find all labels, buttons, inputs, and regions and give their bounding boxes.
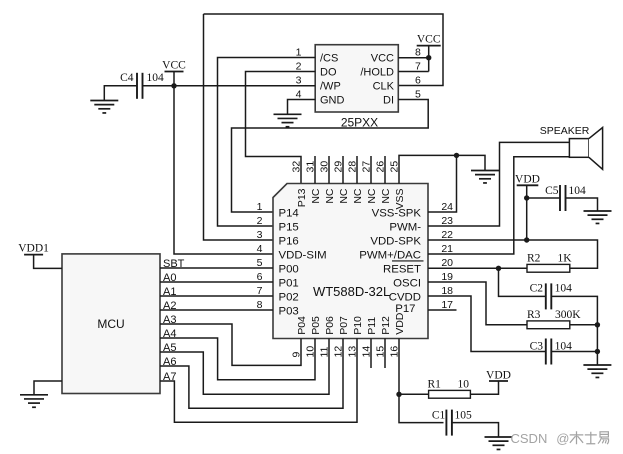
svg-text:WT588D-32L: WT588D-32L [313,284,390,299]
svg-text:C5: C5 [545,185,559,197]
node VCC-pin8 junction [426,55,431,60]
wire DI to P14 [232,100,429,213]
pin number 3 [257,229,263,241]
watermark CSDN [511,431,609,446]
svg-text:P11: P11 [366,317,378,335]
overline RESET [392,260,424,262]
net label A4 [163,328,176,340]
svg-text:2: 2 [257,215,263,227]
wire VSS pin25 to ground [399,155,485,183]
wire VCC to VDD-SIM [174,86,273,254]
svg-text:NC: NC [366,188,378,204]
pin number 22 [441,229,453,241]
svg-text:CSDN: CSDN [511,431,548,446]
pin name P04 bottom [296,316,308,335]
wire C5 row [527,198,598,211]
wire C4 to ground [104,86,137,101]
svg-text:32: 32 [291,161,303,173]
svg-text:GND: GND [320,95,345,107]
wire NC stub pin 14 [370,339,372,369]
pin name GND [320,95,345,107]
label C1 [432,410,446,422]
svg-text:VSS: VSS [394,189,406,210]
net label A3 [163,314,176,326]
label 104 of C2 [555,283,573,295]
ground 25PXX GND [274,114,302,126]
pin name PWM- [389,221,421,233]
node VCC junction [171,83,176,88]
pin number 14 [361,346,373,358]
pin number 26 [375,161,387,173]
power VDD at R1 [486,369,511,381]
wire CLK net: top border from P16 riser to 25PXX CLK pin 6 [204,14,444,240]
pin number 25 [389,161,401,173]
svg-text:P15: P15 [279,221,299,233]
IC MCU body [62,254,160,394]
pin name /WP [320,81,341,93]
wire GND pin4 to ground [288,100,316,115]
wire NC stub pin 28 [356,156,358,184]
svg-text:3: 3 [296,75,302,87]
net label A6 [163,356,176,368]
svg-text:P01: P01 [279,277,299,289]
pin name /HOLD [360,67,394,79]
net label A7 [163,371,176,383]
pin number 15 [375,346,387,358]
svg-text:300K: 300K [555,309,581,321]
net label A5 [163,342,176,354]
node rail-R3 junction [595,322,600,327]
pin name P11 bottom [366,317,378,335]
pin number 13 [347,346,359,358]
svg-text:DI: DI [383,95,394,107]
svg-text:NC: NC [310,188,322,204]
pin name P17 [395,303,415,315]
wire NC stub pin 30 [328,156,330,184]
svg-text:R3: R3 [527,309,541,321]
pin name PWM+/DAC [359,249,421,261]
svg-text:C4: C4 [120,72,134,84]
wire MCU to ground [34,381,62,395]
pin number 9 [291,352,303,358]
ground MCU [20,395,48,407]
wire A0 to P01 [160,281,273,283]
pin number 27 [361,161,373,173]
svg-text:VDD: VDD [394,312,406,335]
pin name NC top [324,188,336,204]
svg-text:105: 105 [455,410,473,422]
pin name OSCI [393,277,421,289]
pin name CVDD [389,291,421,303]
pin number 20 [441,257,453,269]
pin name P15 [279,221,299,233]
pin number 30 [319,161,331,173]
svg-text:MCU: MCU [97,317,124,331]
pin name VCC [371,53,394,65]
wire VSS-SPK pin24 [428,155,457,212]
svg-text:VDD: VDD [486,369,511,381]
pin name P05 bottom [310,316,322,335]
pin number 24 [441,201,453,213]
svg-text:/CS: /CS [320,53,338,65]
svg-text:VCC: VCC [162,60,186,72]
svg-text:P13: P13 [296,188,308,207]
svg-text:104: 104 [147,72,165,84]
svg-text:VCC: VCC [371,53,394,65]
pin name VDD bottom [394,312,406,335]
svg-text:10: 10 [458,378,470,390]
pin number 28 [347,161,359,173]
svg-text:104: 104 [569,185,587,197]
svg-text:P03: P03 [279,305,299,317]
pin number 3 [296,75,302,87]
power VCC main [162,60,186,87]
pin number 19 [441,271,453,283]
svg-text:4: 4 [257,243,263,255]
net label A2 [163,300,176,312]
pin number 1 [296,47,302,59]
pin number 4 [257,243,263,255]
power VDD1 [18,243,62,269]
pin name /CS [320,53,338,65]
label R2 [527,253,541,265]
wire NC stub pin 26 [384,156,386,184]
svg-text:1: 1 [257,201,263,213]
wire SBT to P00 [160,267,273,269]
pin name CLK [373,81,395,93]
pin number 16 [389,346,401,358]
svg-text:P04: P04 [296,316,308,335]
pin name P07 bottom [338,316,350,335]
svg-text:VDD: VDD [515,173,540,185]
svg-text:CLK: CLK [373,81,395,93]
svg-text:4: 4 [296,89,302,101]
node rail-C3 junction [595,349,600,354]
svg-text:104: 104 [555,340,573,352]
svg-text:P10: P10 [352,316,364,335]
wire A1 to P02 [160,295,273,297]
label 104 of C4 [147,72,165,84]
wire NC stub pin 31 [314,156,316,184]
svg-text:C2: C2 [530,283,544,295]
pin name NC top [352,188,364,204]
label C5 [545,185,559,197]
resistor R2 [527,264,570,272]
pin number 29 [333,161,345,173]
svg-text:7: 7 [415,61,421,73]
label 1K [558,253,573,265]
wire A7 to P10 [160,339,357,423]
pin number 4 [296,89,302,101]
svg-text:SPEAKER: SPEAKER [540,125,590,137]
pin number 18 [441,285,453,297]
pin name P02 [279,291,299,303]
pin name NC top [380,188,392,204]
pin name DO [320,67,337,79]
pin number 11 [319,346,331,357]
svg-text:P05: P05 [310,316,322,335]
wire A6 to P07 [160,339,343,409]
svg-text:PWM-: PWM- [389,221,421,233]
net label A1 [163,286,176,298]
label 104 of C3 [555,340,573,352]
pin name VDD-SPK [370,235,421,247]
pin name DI [383,95,394,107]
pin name NC top [366,188,378,204]
svg-text:2: 2 [296,61,302,73]
capacitor C4 [137,73,143,99]
pin number 2 [296,61,302,73]
svg-text:P06: P06 [324,316,336,335]
pin name P12 bottom [380,316,392,335]
power VCC at 25PXX [398,34,441,72]
wire CVDD to C3 [428,296,546,352]
label 25PXX [341,116,378,130]
pin number 6 [415,75,421,87]
resistor R3 [527,321,570,329]
pin number 5 [415,89,421,101]
svg-text:104: 104 [555,283,573,295]
pin number 1 [257,201,263,213]
svg-text:VDD-SPK: VDD-SPK [370,235,421,247]
svg-text:5: 5 [415,89,421,101]
wire C3 right [551,351,597,353]
pin name RESET [383,263,421,275]
ground rail [583,365,611,377]
svg-text:NC: NC [352,188,364,204]
pin name P13 top [296,188,308,207]
svg-text:NC: NC [380,188,392,204]
svg-text:P07: P07 [338,316,350,335]
svg-text:P02: P02 [279,291,299,303]
wire R1 row [399,381,499,394]
pin name P01 [279,277,299,289]
label 300K [555,309,581,321]
wire /CS to P15 [218,58,316,227]
pin number 5 [257,257,263,269]
label 10 [458,378,470,390]
svg-text:CVDD: CVDD [389,291,421,303]
wire C2 branch [499,268,598,365]
svg-text:NC: NC [338,188,350,204]
pin name NC top [338,188,350,204]
svg-text:DO: DO [320,67,337,79]
IC U1 WT588D-32L body [273,184,428,339]
svg-text:R1: R1 [428,378,442,390]
svg-text:C1: C1 [432,410,446,422]
wire PWM+ pin21 to speaker [428,157,569,254]
svg-text:1K: 1K [558,253,573,265]
wire NC stub pin 29 [342,156,344,184]
pin number 31 [305,161,317,173]
wire /WP-VCC row [143,85,316,87]
wire A5 to P06 [160,339,329,395]
pin name VSS-SPK [372,207,422,219]
pin number 23 [441,215,453,227]
pin name VDD-SIM [279,249,327,261]
svg-text:OSCI: OSCI [393,277,421,289]
node VSS junction [454,153,459,158]
pin name P03 [279,305,299,317]
net label A0 [163,272,176,284]
pin number 8 [257,299,263,311]
pin number 32 [291,161,303,173]
wire VDD-SPK row [428,240,598,268]
node RESET-C2 junction [496,266,501,271]
ground at C5 [584,211,612,223]
net label SBT [163,258,185,270]
svg-text:R2: R2 [527,253,541,265]
svg-text:VDD-SIM: VDD-SIM [279,249,327,261]
label C2 [530,283,544,295]
pin name VSS top [394,189,406,210]
node VDD rail junction [524,237,529,242]
label C4 [120,72,134,84]
svg-text:VCC: VCC [417,34,441,46]
speaker SPEAKER [569,128,602,170]
power VDD at C5 [515,173,540,240]
ground VSS [471,171,499,183]
label R3 [527,309,541,321]
ground at C4 [90,101,118,113]
svg-text:P12: P12 [380,316,392,335]
label SPEAKER [540,125,590,137]
wire RESET row [428,267,527,269]
wire OSCI to R3 [428,282,527,325]
svg-text:NC: NC [324,188,336,204]
svg-text:P16: P16 [279,235,299,247]
pin number 8 [415,47,421,59]
pin number 7 [257,285,263,297]
svg-text:@: @ [556,431,569,446]
wire A4 to P05 [160,338,315,380]
label MCU [97,317,124,331]
svg-text:20: 20 [441,257,453,269]
svg-text:1: 1 [296,47,302,59]
capacitor C5 [560,185,566,211]
pin number 10 [305,346,317,358]
node R1-C1 junction [396,392,401,397]
wire A2 to P03 [160,309,273,311]
wire DO to P13 [246,72,316,184]
pin name P06 bottom [324,316,336,335]
label 104 of C5 [569,185,587,197]
label 105 of C1 [455,410,473,422]
label C3 [530,340,544,352]
wire NC stub pin 27 [370,156,372,184]
pin number 21 [441,243,453,255]
pin name P14 [279,207,299,219]
pin number 17 [441,299,453,311]
svg-text:P00: P00 [279,263,299,275]
label WT588D-32L [313,284,390,299]
node VDD-C5 junction [524,195,529,200]
wire A3 to P04 [160,324,301,365]
pin number 7 [415,61,421,73]
svg-text:6: 6 [415,75,421,87]
svg-text:/WP: /WP [320,81,341,93]
pin name P10 bottom [352,316,364,335]
wire NC stub pin 15 [384,339,386,369]
svg-text:8: 8 [415,47,421,59]
svg-text:RESET: RESET [383,263,421,275]
wire C1 right to ground [452,423,499,437]
pin name P00 [279,263,299,275]
svg-text:C3: C3 [530,340,544,352]
label R1 [428,378,442,390]
ground at C1 [485,437,513,449]
svg-text:VDD1: VDD1 [18,243,49,255]
pin number 2 [257,215,263,227]
wire P17 stub [428,309,457,311]
pin number 6 [257,271,263,283]
wire R3 right [570,324,598,326]
wire PWM- pin23 to speaker [428,142,569,226]
svg-text:3: 3 [257,229,263,241]
capacitor C3 [546,339,552,365]
pin name P16 [279,235,299,247]
capacitor C2 [546,283,552,309]
pin number 12 [333,346,345,358]
svg-text:/HOLD: /HOLD [360,67,394,79]
wire VDD pin16 down [399,339,444,423]
capacitor C1 [446,410,452,436]
svg-text:PWM+/DAC: PWM+/DAC [359,249,421,261]
svg-text:P14: P14 [279,207,299,219]
pin name NC top [310,188,322,204]
resistor R1 [429,390,471,398]
IC U2 25PXX body [315,45,398,112]
